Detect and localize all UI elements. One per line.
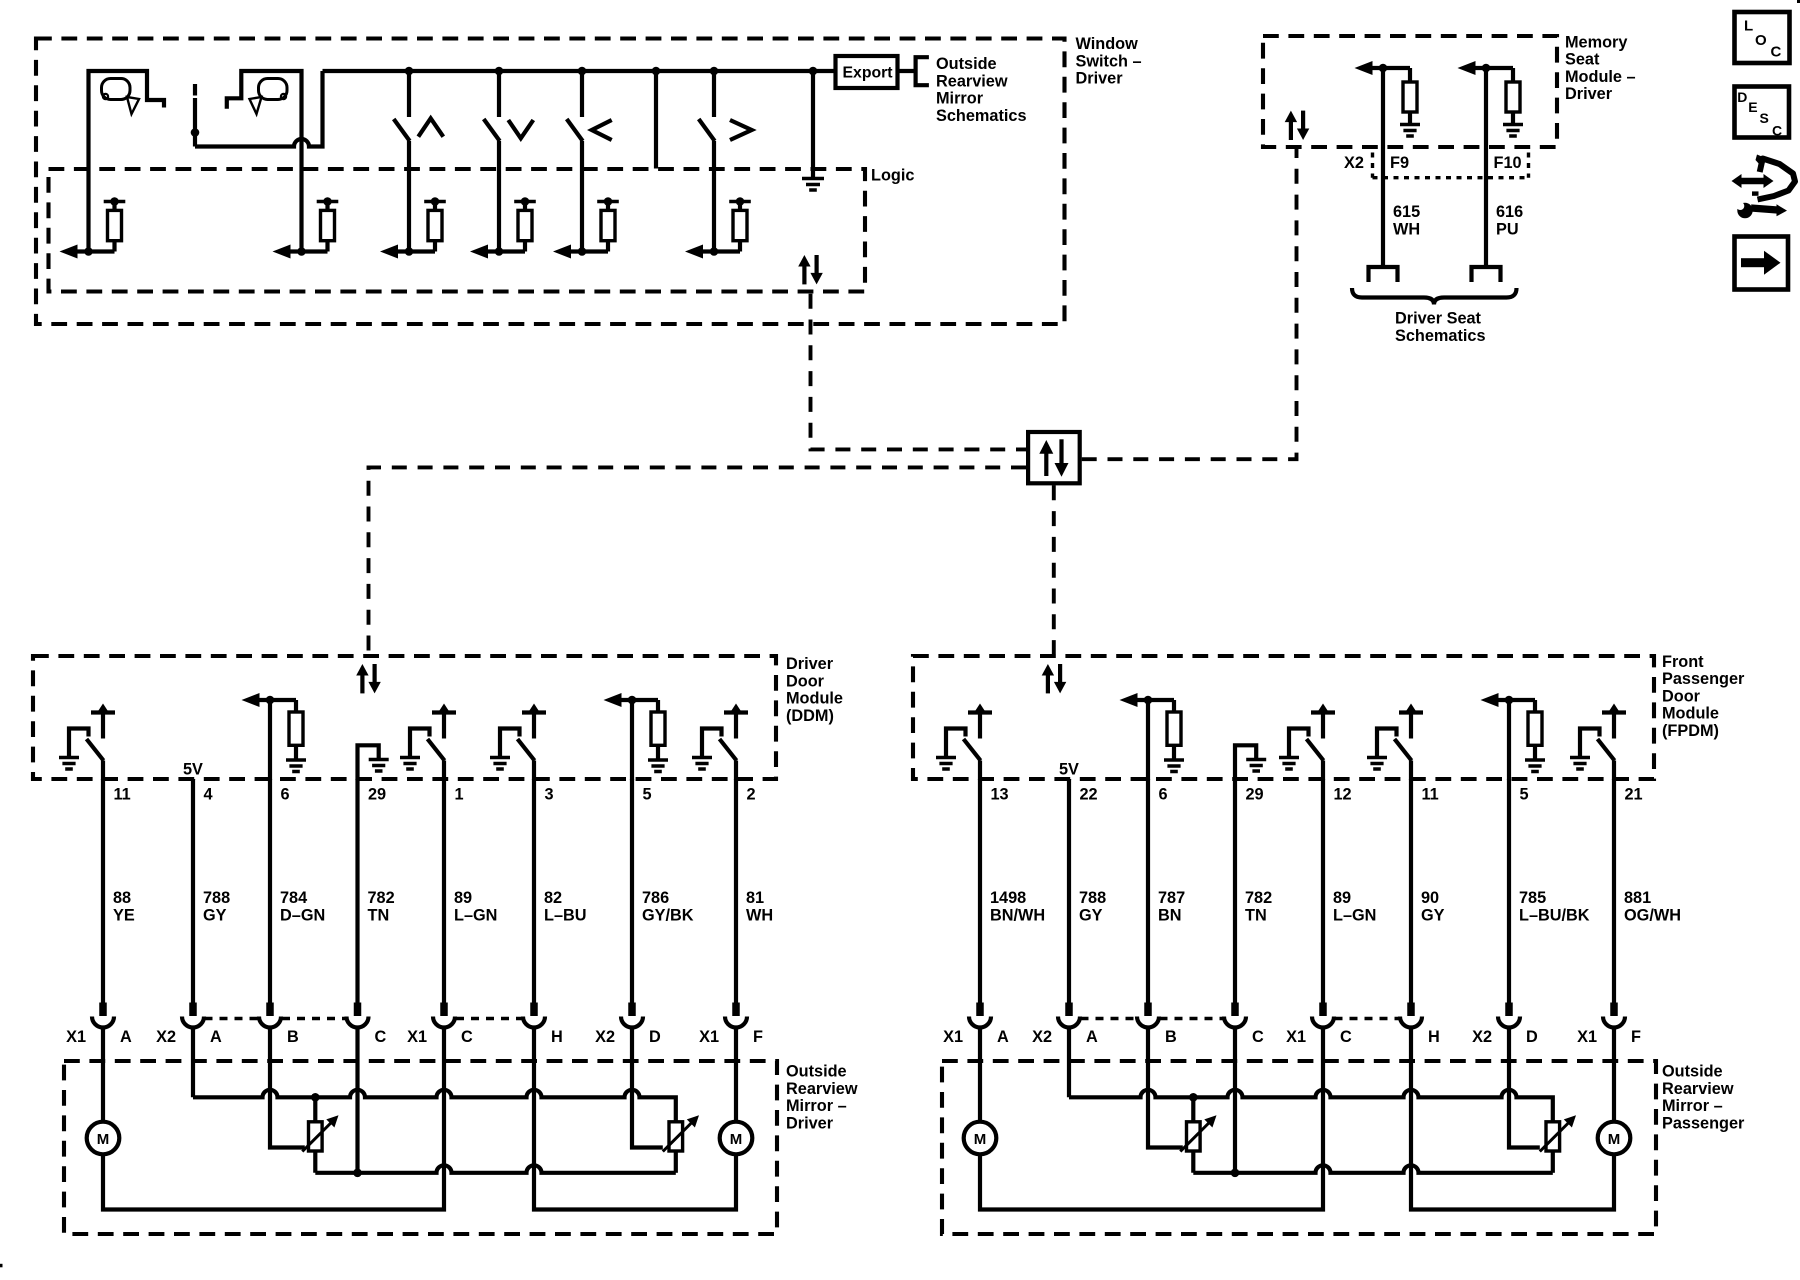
svg-text:C: C	[1772, 123, 1782, 139]
svg-text:M: M	[97, 1131, 110, 1148]
off-page connector to Outside Rearview Mirror Schematics	[916, 57, 929, 85]
ground	[1279, 758, 1299, 770]
ground	[369, 760, 389, 772]
ground	[286, 760, 306, 772]
position sensor potentiometer driver vertical position sensor	[309, 1122, 323, 1151]
connector pin terminal X1 F	[699, 1003, 763, 1047]
wire pin 2: circuit 81 WH	[736, 779, 773, 1003]
mirror motor passenger vertical	[964, 1122, 997, 1155]
wire: select pole to bus riser (hops over right mirror wire)	[195, 71, 323, 147]
position sensor potentiometer driver horizontal position sensor	[669, 1122, 683, 1151]
wire pin 13: circuit 1498 BN/WH	[980, 779, 1045, 1003]
connector pin terminal X1 A	[66, 1003, 132, 1047]
connector pin terminal X1 C	[1286, 1003, 1352, 1047]
connector pin terminal C	[1224, 1003, 1264, 1047]
wire: sensor 1 leads (passenger)	[1191, 1097, 1195, 1173]
svg-text:29: 29	[1246, 786, 1264, 804]
wire pin 5: circuit 785 L&#8211;BU/BK	[1509, 779, 1590, 1003]
svg-text:Driver SeatSchematics: Driver SeatSchematics	[1395, 310, 1486, 345]
off-page connector fork F9	[1369, 267, 1398, 282]
svg-text:5: 5	[643, 786, 652, 804]
svg-text:L: L	[1744, 18, 1753, 35]
serial data wire: gateway to DDM	[369, 467, 1027, 654]
connector pin terminal B	[1137, 1003, 1177, 1047]
svg-text:GY: GY	[1421, 906, 1445, 924]
svg-text:WH: WH	[746, 906, 773, 924]
ground	[1246, 760, 1266, 772]
switch: mirror right	[699, 71, 752, 252]
signal input DDM pin 6: arrow and pull-down resistor	[242, 693, 304, 780]
connector pin terminal C	[347, 1003, 387, 1047]
logic input input at x=301.5: arrow and pull-up resistor	[273, 197, 339, 258]
svg-text:6: 6	[1159, 786, 1168, 804]
svg-text:A: A	[1086, 1028, 1098, 1046]
svg-text:785: 785	[1519, 889, 1546, 907]
position sensor potentiometer passenger horizontal position sensor	[1546, 1122, 1560, 1151]
ground	[400, 758, 420, 770]
svg-text:BN/WH: BN/WH	[990, 906, 1045, 924]
switch FPDM pin 13 (drives to ground)	[946, 704, 992, 781]
connector pin terminal X2 A	[156, 1003, 222, 1047]
wire pin 6: circuit 787 BN	[1148, 779, 1185, 1003]
wire: DDM 5V feed pin 4	[191, 779, 195, 780]
junction F10	[1482, 64, 1491, 73]
svg-text:TN: TN	[368, 906, 390, 924]
module box: Outside Rearview Mirror - Passenger	[942, 1061, 1656, 1234]
mirror motor passenger horizontal	[1598, 1122, 1631, 1155]
svg-text:2: 2	[747, 786, 756, 804]
fuse block X2 outline	[1344, 153, 1529, 178]
svg-text:YE: YE	[113, 906, 135, 924]
mirror motor driver vertical	[87, 1122, 120, 1155]
signal input FPDM pin 6: arrow and pull-down resistor	[1120, 693, 1182, 780]
connector group link X2 A-B (passenger)	[1081, 1017, 1137, 1020]
wire: 5V rail from connector A (passenger)	[1069, 1090, 1553, 1122]
wire: connector C common (passenger)	[1233, 1028, 1237, 1173]
ground	[1164, 760, 1184, 772]
svg-text:4: 4	[204, 786, 213, 804]
wire: connector D to sensor 2 wiper (driver)	[632, 1028, 663, 1148]
svg-text:81: 81	[746, 889, 764, 907]
bus junction	[578, 67, 587, 76]
svg-text:90: 90	[1421, 889, 1439, 907]
memory seat output branch F9	[1355, 61, 1418, 124]
svg-text:88: 88	[113, 889, 131, 907]
svg-text:F9: F9	[1390, 154, 1409, 172]
wire: motor 1 to connector C pin (passenger)	[980, 1028, 1323, 1210]
svg-text:M: M	[974, 1131, 987, 1148]
svg-text:C: C	[1340, 1028, 1352, 1046]
serial data double arrow FPDM	[1042, 664, 1067, 693]
svg-text:6: 6	[281, 786, 290, 804]
wire: connector H to motor 2 (passenger)	[1411, 1028, 1614, 1210]
wire: FPDM 5V feed pin 22	[1067, 779, 1071, 780]
svg-text:788: 788	[1079, 889, 1106, 907]
ground	[59, 758, 79, 770]
off-page connector fork F10	[1472, 267, 1501, 282]
connector pin terminal B	[259, 1003, 299, 1047]
wire pin 4: circuit 788 GY	[193, 779, 230, 1003]
svg-text:5V: 5V	[183, 761, 203, 779]
connector pin terminal H	[1400, 1003, 1440, 1047]
module box: Window Switch - Driver	[36, 39, 1065, 325]
signal input FPDM pin 5: arrow and pull-down resistor	[1481, 693, 1543, 780]
switch FPDM pin 12 (drives to ground)	[1289, 704, 1335, 781]
svg-text:C: C	[1771, 44, 1782, 61]
svg-text:F: F	[1631, 1028, 1641, 1046]
bus junction	[809, 67, 818, 76]
svg-text:F10: F10	[1494, 154, 1522, 172]
wire: ground rail (passenger)	[1193, 1165, 1553, 1172]
connector group link X2 A-B-C	[205, 1017, 259, 1020]
serial data double arrow DDM	[356, 664, 381, 693]
module box: Driver Door Module (DDM)	[33, 656, 776, 779]
svg-text:X2: X2	[1032, 1028, 1052, 1046]
connector group link X1 C-H	[456, 1017, 522, 1020]
wire pin 11: circuit 88 YE	[103, 779, 135, 1003]
bus junction	[495, 67, 504, 76]
ground	[936, 758, 956, 770]
switch FPDM pin 21 (drives to ground)	[1580, 704, 1626, 781]
ground	[1367, 758, 1387, 770]
wire: circuit 615 WH through fuse F9	[1383, 68, 1420, 266]
wire: connector F to motor 2 (passenger)	[1612, 1028, 1616, 1122]
mirror select switch pole	[193, 84, 197, 147]
svg-text:782: 782	[1245, 889, 1272, 907]
wire pin 29: circuit 782 TN	[358, 779, 395, 1003]
wire: 5V rail from connector A (driver)	[193, 1090, 676, 1122]
svg-text:Logic: Logic	[871, 167, 914, 185]
wire pin 21: circuit 881 OG/WH	[1614, 779, 1681, 1003]
wire pin 5: circuit 786 GY/BK	[632, 779, 694, 1003]
svg-text:X1: X1	[943, 1028, 963, 1046]
potentiometer wiper arrow passenger sensor 1	[1180, 1115, 1216, 1151]
wire pin 1: circuit 89 L&#8211;GN	[444, 779, 497, 1003]
svg-text:E: E	[1748, 99, 1757, 115]
icon: forward arrow box	[1735, 237, 1789, 290]
svg-text:X1: X1	[1577, 1028, 1597, 1046]
wire: Export to off-page	[898, 69, 916, 73]
svg-text:L–BU: L–BU	[544, 906, 587, 924]
wire pin 6: circuit 784 D&#8211;GN	[270, 779, 325, 1003]
svg-text:5V: 5V	[1059, 761, 1079, 779]
svg-text:C: C	[461, 1028, 473, 1046]
wire pin 22: circuit 788 GY	[1069, 779, 1106, 1003]
wire: left mirror circuit to logic input	[89, 71, 165, 252]
svg-text:11: 11	[114, 786, 131, 804]
svg-text:M: M	[730, 1131, 743, 1148]
logic input input at x=714: arrow and pull-up resistor	[685, 197, 751, 258]
wire pin 29: circuit 782 TN	[1235, 779, 1272, 1003]
svg-text:L–GN: L–GN	[1333, 906, 1376, 924]
svg-text:616: 616	[1496, 203, 1523, 221]
connector pin terminal X1 C	[407, 1003, 473, 1047]
svg-text:L–GN: L–GN	[454, 906, 497, 924]
svg-text:A: A	[120, 1028, 132, 1046]
svg-text:21: 21	[1625, 786, 1643, 804]
switch: mirror left	[567, 71, 612, 252]
svg-text:29: 29	[368, 786, 386, 804]
junction F9	[1379, 64, 1388, 73]
svg-text:22: 22	[1080, 786, 1098, 804]
svg-text:D–GN: D–GN	[280, 906, 325, 924]
module box: Outside Rearview Mirror - Driver	[64, 1061, 777, 1234]
svg-text:786: 786	[642, 889, 669, 907]
svg-text:13: 13	[991, 786, 1009, 804]
logic box	[49, 169, 866, 292]
junction 5V rail / sensor 1	[1189, 1093, 1198, 1102]
Export box	[836, 56, 898, 88]
svg-text:F: F	[753, 1028, 763, 1046]
svg-text:782: 782	[368, 889, 395, 907]
serial data wire: logic to gateway	[811, 294, 1027, 450]
wire: sensor 2 bottom lead (driver)	[674, 1151, 678, 1173]
svg-text:B: B	[287, 1028, 299, 1046]
connector pin terminal X2 D	[1472, 1003, 1538, 1047]
wire: connector A to motor 1 (passenger)	[978, 1028, 982, 1122]
svg-text:X2: X2	[1344, 154, 1364, 172]
serial data double arrow logic	[798, 255, 823, 284]
page artifact bottom left	[0, 1264, 3, 1268]
svg-text:89: 89	[454, 889, 472, 907]
wire pin 12: circuit 89 L&#8211;GN	[1323, 779, 1376, 1003]
switch: mirror up	[394, 71, 444, 252]
switch DDM pin 2 (drives to ground)	[702, 704, 748, 781]
svg-text:GY/BK: GY/BK	[642, 906, 694, 924]
wire pin 3: circuit 82 L&#8211;BU	[534, 779, 587, 1003]
wire: switch supply bus to Export	[323, 69, 836, 73]
connector pin terminal X2 D	[595, 1003, 661, 1047]
wire: connector B to sensor 1 wiper (passenger)	[1148, 1028, 1183, 1148]
svg-text:GY: GY	[1079, 906, 1103, 924]
wire: ground rail (driver)	[315, 1165, 676, 1172]
svg-text:H: H	[1428, 1028, 1440, 1046]
potentiometer wiper arrow passenger sensor 2	[1540, 1115, 1576, 1151]
wire: connector C common (driver)	[355, 1028, 359, 1173]
connector pin terminal X2 A	[1032, 1003, 1098, 1047]
svg-text:B: B	[1165, 1028, 1177, 1046]
module box: Front Passenger Door Module (FPDM)	[913, 656, 1654, 779]
switch DDM pin 1 (drives to ground)	[410, 704, 456, 781]
svg-text:M: M	[1608, 1131, 1621, 1148]
ground	[1570, 758, 1590, 770]
ground	[490, 758, 510, 770]
logic input input at x=88.5: arrow and pull-up resistor	[60, 197, 126, 258]
svg-text:615: 615	[1393, 203, 1420, 221]
svg-text:X1: X1	[66, 1028, 86, 1046]
svg-text:X1: X1	[699, 1028, 719, 1046]
svg-text:WH: WH	[1393, 220, 1420, 238]
memory seat output branch F10	[1458, 61, 1521, 124]
svg-text:12: 12	[1334, 786, 1352, 804]
page artifact top right	[1797, 0, 1800, 3]
ground	[648, 760, 668, 772]
svg-text:C: C	[1252, 1028, 1264, 1046]
bus junction	[652, 67, 661, 76]
svg-text:TN: TN	[1245, 906, 1267, 924]
ground return FPDM pin 29	[1235, 745, 1256, 780]
wire: sensor 2 bottom lead (passenger)	[1551, 1151, 1555, 1173]
position sensor potentiometer passenger vertical position sensor	[1187, 1122, 1201, 1151]
wire: connector A to motor 1 (driver)	[101, 1028, 105, 1122]
svg-text:881: 881	[1624, 889, 1651, 907]
svg-text:A: A	[997, 1028, 1009, 1046]
icon: navigation arrows with wrench	[1732, 155, 1796, 219]
logic input input at x=582: arrow and pull-up resistor	[553, 197, 619, 258]
icon: DESC box	[1735, 87, 1790, 139]
junction common / ground rail	[353, 1169, 362, 1178]
bus junction	[710, 67, 719, 76]
module box: Memory Seat Module - Driver	[1263, 36, 1557, 147]
svg-text:H: H	[551, 1028, 563, 1046]
connector group link X2 B-C	[282, 1017, 346, 1020]
serial data gateway box	[1028, 432, 1080, 483]
mirror motor driver horizontal	[720, 1122, 753, 1155]
svg-text:O: O	[1755, 32, 1767, 49]
svg-text:89: 89	[1333, 889, 1351, 907]
ground	[692, 758, 712, 770]
svg-text:D: D	[649, 1028, 661, 1046]
wire: circuit 616 PU through fuse F10	[1486, 68, 1523, 266]
svg-text:1498: 1498	[990, 889, 1026, 907]
svg-text:GY: GY	[203, 906, 227, 924]
wire: bus feed to logic	[654, 71, 658, 169]
serial data double arrow memory seat module	[1285, 111, 1310, 140]
ground	[1503, 125, 1523, 137]
ground	[1400, 125, 1420, 137]
ground	[1525, 760, 1545, 772]
connector group link X2 B-C (passenger)	[1160, 1017, 1224, 1020]
svg-text:1: 1	[455, 786, 464, 804]
connector group link X1 C-H (passenger)	[1335, 1017, 1400, 1020]
svg-text:788: 788	[203, 889, 230, 907]
wire: connector D to sensor 2 wiper (passenger)	[1509, 1028, 1540, 1148]
svg-text:D: D	[1737, 89, 1747, 105]
svg-text:X1: X1	[407, 1028, 427, 1046]
svg-text:X2: X2	[156, 1028, 176, 1046]
mirror symbol right	[250, 79, 288, 115]
wire: right mirror circuit to logic input	[227, 71, 302, 252]
wire: connector B to sensor 1 wiper (driver)	[270, 1028, 305, 1148]
svg-text:OG/WH: OG/WH	[1624, 906, 1681, 924]
switch: mirror down	[484, 71, 534, 252]
svg-text:784: 784	[280, 889, 307, 907]
switch FPDM pin 11 (drives to ground)	[1377, 704, 1423, 781]
logic input input at x=409: arrow and pull-up resistor	[380, 197, 446, 258]
junction on select pole	[191, 128, 200, 137]
junction common / ground rail	[1231, 1169, 1240, 1178]
icon: LOC box	[1735, 12, 1790, 63]
potentiometer wiper arrow driver sensor 2	[663, 1115, 699, 1151]
wire pin 11: circuit 90 GY	[1411, 779, 1445, 1003]
svg-text:Export: Export	[843, 65, 894, 82]
wire: connector H to motor 2 (driver)	[534, 1028, 736, 1210]
ground for switch assembly	[802, 179, 824, 191]
switch DDM pin 3 (drives to ground)	[500, 704, 546, 781]
mirror symbol left	[102, 79, 140, 115]
svg-text:787: 787	[1158, 889, 1185, 907]
svg-text:X2: X2	[1472, 1028, 1492, 1046]
svg-text:BN: BN	[1158, 906, 1182, 924]
svg-text:C: C	[375, 1028, 387, 1046]
connector pin terminal X1 A	[943, 1003, 1009, 1047]
svg-text:D: D	[1526, 1028, 1538, 1046]
switch DDM pin 11 (drives to ground)	[69, 704, 115, 781]
svg-text:S: S	[1760, 110, 1769, 126]
svg-text:11: 11	[1422, 786, 1439, 804]
logic input input at x=499: arrow and pull-up resistor	[470, 197, 536, 258]
wire: sensor 1 leads (driver)	[313, 1097, 317, 1173]
svg-text:5: 5	[1520, 786, 1529, 804]
wire: bus to ground	[811, 71, 815, 178]
svg-text:A: A	[210, 1028, 222, 1046]
svg-text:82: 82	[544, 889, 562, 907]
junction 5V rail / sensor 1	[311, 1093, 320, 1102]
svg-text:L–BU/BK: L–BU/BK	[1519, 906, 1590, 924]
wire: connector F to motor 2 (driver)	[734, 1028, 738, 1122]
serial data wire: gateway to FPDM	[1052, 485, 1056, 654]
wire: motor 1 to connector C pin (driver)	[103, 1028, 444, 1210]
connector pin terminal X1 F	[1577, 1003, 1641, 1047]
connector pin terminal H	[523, 1003, 563, 1047]
svg-text:PU: PU	[1496, 220, 1519, 238]
potentiometer wiper arrow driver sensor 1	[302, 1115, 338, 1151]
serial data wire: gateway to memory seat module	[1082, 149, 1297, 459]
signal input DDM pin 5: arrow and pull-down resistor	[604, 693, 666, 780]
svg-text:X2: X2	[595, 1028, 615, 1046]
brace: Driver Seat Schematics	[1352, 288, 1517, 305]
svg-text:X1: X1	[1286, 1028, 1306, 1046]
ground return DDM pin 29	[358, 745, 379, 780]
bus junction	[405, 67, 414, 76]
svg-text:3: 3	[545, 786, 554, 804]
